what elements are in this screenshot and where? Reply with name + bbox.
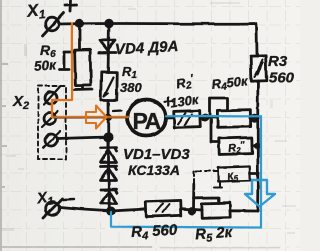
wire zener chain [108, 137, 109, 211]
wire between R4 R5 [181, 209, 202, 210]
node wiper junction [202, 115, 208, 121]
orange highlight path [52, 24, 128, 118]
contact X2 pin1 [45, 92, 57, 104]
wire R5 to rail [230, 209, 258, 212]
resistor R2p [174, 111, 201, 128]
resistor R6 [75, 50, 91, 85]
wire cyan right [260, 116, 262, 227]
node right rail top [252, 115, 258, 121]
node bottom diode [108, 208, 115, 215]
node meter minus [106, 115, 110, 119]
tap mark below R2pp [214, 181, 222, 188]
resistor R4 560 [146, 200, 182, 216]
contact X2 pin3 [45, 134, 57, 146]
wire R2p to R4 [202, 116, 217, 119]
diode VD4 [100, 40, 116, 50]
connector X2 dashed box [38, 86, 66, 159]
svg-text:PA: PA [133, 108, 161, 134]
minus label bottom [63, 198, 74, 201]
arrow orange flow [86, 106, 107, 129]
wire rail right [256, 81, 259, 211]
wire R1 to node [107, 100, 110, 137]
plus sign top [65, 1, 77, 12]
node junction VD4 [106, 20, 113, 27]
wire VD4 lead [108, 24, 109, 73]
wire X2 to meter black core [54, 116, 128, 118]
wire drop to bottom [192, 184, 195, 211]
node junction R6 [76, 20, 83, 27]
resistor R3 [251, 56, 267, 81]
arrow cyan flow [245, 180, 275, 207]
resistor R5pp dashed [194, 170, 218, 172]
wire top rail [60, 23, 257, 56]
node R5 left [189, 208, 195, 214]
node diode top [105, 134, 112, 141]
wire R4 right lead [250, 116, 258, 119]
resistor R2pp [211, 120, 219, 142]
wire R4 wiper [210, 98, 228, 116]
wire cyan bottom [111, 212, 261, 228]
terminal X1 top [45, 17, 59, 31]
wire orange vertical [52, 24, 72, 118]
resistor R5 2k [202, 203, 230, 219]
zener VD2 [101, 166, 117, 170]
svg-text:380: 380 [120, 80, 142, 95]
svg-text:R3: R3 [268, 53, 288, 70]
wire R6 top lead [78, 24, 81, 51]
wire orange to meter [52, 116, 128, 118]
meter PA [128, 100, 166, 136]
zener VD3 [101, 189, 117, 193]
wire cyan top [166, 115, 261, 118]
svg-text:VD1–VD3: VD1–VD3 [123, 146, 190, 163]
svg-text:560: 560 [269, 70, 295, 87]
resistor R4 50k [217, 110, 250, 127]
svg-text:КС133А: КС133А [128, 162, 180, 178]
resistor R1 [101, 72, 117, 100]
svg-text:VD4 Д9А: VD4 Д9А [115, 38, 179, 58]
wire from X2 bottom contact [57, 137, 108, 139]
cyan highlight path [111, 116, 261, 228]
wire R5 wiper [194, 198, 220, 204]
plus label meter [165, 98, 173, 107]
terminal X1 bottom [46, 202, 60, 216]
black ink [38, 1, 266, 219]
wire dashed drop [193, 171, 195, 184]
wire bottom rail [60, 208, 146, 212]
contact X2 pin2 [44, 113, 56, 125]
wire meter to R2p [166, 116, 173, 119]
zener VD1 [101, 147, 117, 151]
minus label meter [113, 109, 121, 112]
svg-text:50к: 50к [34, 57, 58, 74]
